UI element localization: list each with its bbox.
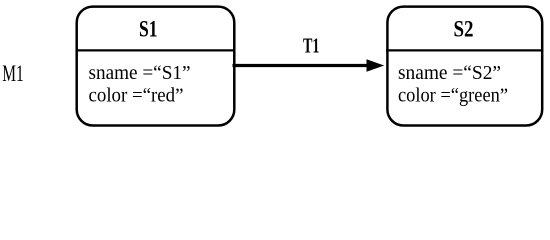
arrowhead — [367, 59, 385, 72]
state box S1 — [77, 7, 235, 126]
svg-text:sname =“S1”: sname =“S1” — [89, 62, 191, 84]
svg-text:color =“red”: color =“red” — [89, 85, 184, 107]
transition arrow wire — [233, 64, 370, 67]
svg-text:T1: T1 — [303, 33, 320, 57]
svg-text:color =“green”: color =“green” — [398, 85, 508, 107]
state box S2 — [387, 7, 542, 126]
svg-text:M1: M1 — [2, 61, 24, 86]
svg-text:S1: S1 — [139, 17, 158, 42]
svg-text:S2: S2 — [454, 17, 474, 42]
svg-text:sname =“S2”: sname =“S2” — [398, 62, 501, 84]
divider S2 — [386, 49, 543, 51]
divider S1 — [76, 49, 236, 51]
